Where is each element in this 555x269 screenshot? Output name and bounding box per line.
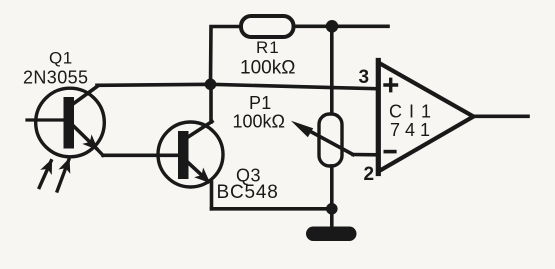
- wire Q1 emitter to Q3 base: [103, 154, 178, 158]
- svg-text:CI1: CI1: [389, 102, 438, 122]
- wire op-amp output: [473, 115, 528, 119]
- node A junction: [205, 79, 217, 91]
- svg-text:3: 3: [359, 67, 370, 88]
- node top junction: [326, 20, 339, 33]
- wire node A down to Q3 collector: [209, 84, 213, 122]
- wire ground stub: [330, 209, 334, 228]
- transistor Q1: [27, 86, 104, 157]
- svg-text:Q1: Q1: [49, 49, 73, 68]
- svg-text:741: 741: [390, 120, 435, 140]
- svg-text:100kΩ: 100kΩ: [240, 58, 295, 79]
- label op-amp minus input: [385, 150, 395, 154]
- wire bottom rail: [212, 207, 332, 211]
- label op-amp plus input: [385, 79, 397, 90]
- wire Q3 emitter down to bottom rail: [210, 182, 214, 209]
- wire R1 right lead / V+ rail: [294, 24, 389, 28]
- wire P1 bottom to bottom junction: [330, 166, 334, 209]
- svg-text:P1: P1: [249, 93, 272, 113]
- light arrow 2: [57, 160, 69, 191]
- transistor Q3: [158, 122, 223, 188]
- svg-text:BC548: BC548: [217, 182, 279, 203]
- potentiometer P1 wiper arrow: [291, 121, 353, 155]
- light arrow 1: [39, 161, 51, 188]
- op-amp U1 CI1 741: [378, 61, 473, 174]
- svg-text:R1: R1: [256, 38, 280, 57]
- svg-text:2N3055: 2N3055: [23, 68, 88, 88]
- resistor R1: [241, 16, 294, 37]
- wire node A to op-amp + input: [97, 84, 377, 88]
- potentiometer P1 body: [319, 114, 342, 166]
- svg-text:2: 2: [364, 164, 375, 185]
- wire R1 left lead and drop to node A: [211, 27, 242, 85]
- wire from top junction down to P1 top: [330, 26, 334, 114]
- svg-text:100kΩ: 100kΩ: [233, 112, 286, 132]
- node bottom junction: [326, 203, 338, 215]
- wire P1 wiper to op-amp inverting input: [353, 153, 377, 157]
- ground: [306, 227, 357, 242]
